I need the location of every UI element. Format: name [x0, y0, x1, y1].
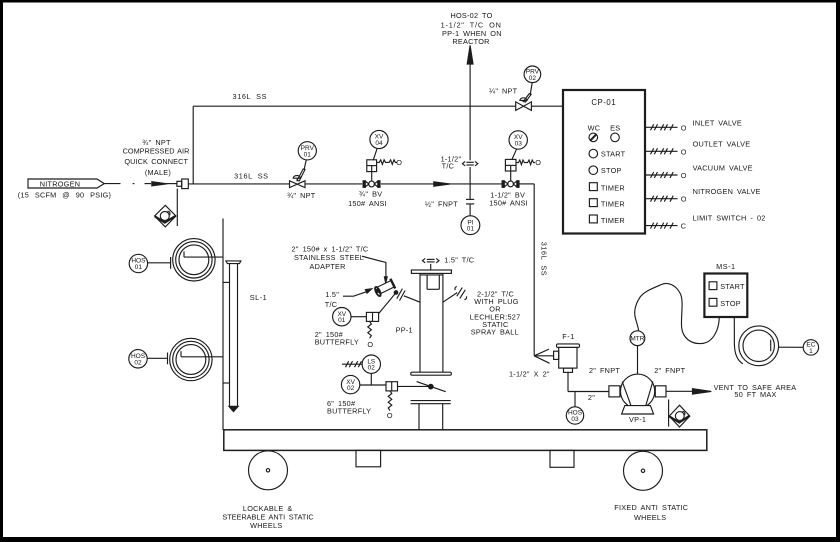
valve XV-04 (ball valve) — [363, 181, 380, 188]
svg-text:PP-1: PP-1 — [396, 325, 413, 334]
wire: XV-02 actuator to valve — [398, 385, 429, 387]
svg-text:REACTOR: REACTOR — [452, 37, 489, 46]
valve XV-03 (ball valve) — [502, 181, 519, 188]
nitrogen source flag — [18, 179, 111, 199]
svg-text:STAINLESS STEEL: STAINLESS STEEL — [294, 253, 364, 262]
svg-text:02: 02 — [529, 75, 537, 82]
svg-text:O: O — [681, 171, 687, 180]
spring squiggle XV-01 to O — [367, 321, 373, 349]
svg-text:BUTTERFLY: BUTTERFLY — [315, 338, 359, 347]
wire: HOS-02 to hose coil — [147, 353, 167, 365]
control panel CP-01 box — [563, 90, 645, 234]
wheel right — [624, 451, 663, 490]
svg-text:FIXED ANTI STATIC: FIXED ANTI STATIC — [614, 503, 688, 512]
anti-static grounding reel symbol (left) — [155, 205, 176, 227]
svg-text:2" FNPT: 2" FNPT — [589, 366, 620, 375]
button START — [589, 149, 626, 158]
TC flange bars (2-1/2" side) — [455, 287, 467, 300]
svg-text:COMPRESSED AIR: COMPRESSED AIR — [123, 146, 190, 155]
svg-text:SL-1: SL-1 — [250, 293, 267, 302]
label compressed air block — [123, 138, 190, 177]
instrument bubble XV-01 — [333, 308, 351, 326]
wire: XV-02 to actuator — [360, 384, 386, 386]
signal line outlet valve — [645, 139, 750, 156]
svg-text:STOP: STOP — [601, 166, 622, 175]
wire: XV-04 bubble link — [373, 148, 377, 160]
svg-text:TIMER: TIMER — [601, 216, 625, 225]
support block left — [356, 450, 381, 466]
instrument bubble PRV-02 — [524, 66, 541, 83]
label fixed wheels — [614, 503, 688, 522]
signal line limit switch — [645, 214, 766, 231]
svg-text:START: START — [601, 150, 626, 159]
wire: nitrogen feed dashed — [104, 182, 177, 186]
svg-text:VACUUM VALVE: VACUUM VALVE — [693, 164, 753, 173]
wire: drop to anti-static reel — [176, 189, 178, 226]
svg-text:½" FNPT: ½" FNPT — [425, 199, 458, 208]
svg-text:STOP: STOP — [720, 299, 741, 308]
cable: MS-1 to MTR — [635, 283, 720, 343]
indicator WC — [588, 124, 601, 142]
svg-text:VP-1: VP-1 — [629, 415, 646, 424]
svg-text:O: O — [387, 411, 393, 420]
svg-text:ES: ES — [610, 124, 620, 133]
svg-text:LIMIT SWITCH - 02: LIMIT SWITCH - 02 — [693, 214, 766, 223]
TC flange bars (1-1/2" side) — [397, 289, 405, 301]
wire: main line y=184 — [188, 183, 289, 185]
label 2-1/2" T/C spray ball block — [470, 289, 521, 336]
wire: MTR to pump — [637, 346, 639, 375]
svg-text:¾" BV: ¾" BV — [359, 190, 382, 199]
svg-text:2": 2" — [588, 393, 595, 402]
button STOP (MS-1) — [709, 298, 741, 307]
wire: XV-03 bubble link — [512, 149, 517, 160]
wire: vessel right nozzle — [443, 293, 457, 303]
svg-text:T/C: T/C — [325, 300, 338, 309]
spring squiggle XV-02 to O — [387, 391, 393, 420]
svg-text:2" FNPT: 2" FNPT — [654, 366, 685, 375]
svg-text:01: 01 — [467, 226, 475, 233]
svg-text:316L SS: 316L SS — [233, 92, 268, 101]
svg-text:(MALE): (MALE) — [145, 168, 171, 177]
signal line nitrogen valve — [645, 187, 761, 204]
butterfly valve disc (6" outlet) — [417, 382, 446, 392]
label lockable wheels — [222, 504, 313, 530]
svg-text:01: 01 — [304, 151, 312, 158]
svg-text:1.5": 1.5" — [325, 290, 339, 299]
wire: riser to header — [192, 106, 194, 184]
cable: MS-1 to cord reel — [734, 318, 743, 364]
cart frame vertical member — [222, 219, 224, 431]
signal squiggle XV-03 to O — [516, 158, 541, 167]
label 1-1/2" BV 150# ANSI — [489, 191, 528, 208]
svg-text:NITROGEN: NITROGEN — [40, 179, 81, 188]
valve PRV-01 — [290, 160, 307, 188]
label 1-1/2" T/C — [441, 155, 462, 171]
node: adapter lower dot — [376, 289, 379, 292]
wire: F-1 outlet down and right to pump — [568, 372, 609, 391]
svg-text:QUICK CONNECT: QUICK CONNECT — [124, 157, 188, 166]
vessel PP-1 — [411, 270, 452, 375]
wire: reel to EC-1 — [779, 346, 804, 348]
svg-text:START: START — [720, 282, 745, 291]
instrument bubble LS-02 — [362, 355, 380, 373]
wire: main line to corner and down — [519, 184, 534, 356]
reducer fan 1-1/2 x 2 — [534, 349, 553, 363]
label adapter block — [292, 245, 369, 271]
svg-text:O: O — [681, 195, 687, 204]
button START (MS-1) — [709, 282, 745, 291]
svg-text:O: O — [396, 158, 402, 167]
label 2" 150# BUTTERFLY — [315, 330, 359, 347]
label 3/4" BV 150# ANSI — [348, 190, 387, 209]
instrument bubble XV-02 — [341, 375, 359, 393]
wire: HOS-03 link — [574, 392, 576, 408]
instrument bubble HOS-02 — [129, 350, 147, 368]
motor bubble MTR — [630, 331, 645, 346]
svg-text:MS-1: MS-1 — [716, 262, 735, 271]
timer 3 — [589, 215, 624, 225]
svg-text:O: O — [367, 340, 373, 349]
svg-text:SPRAY BALL: SPRAY BALL — [471, 327, 519, 336]
svg-text:(15 SCFM @ 90 PSIG): (15 SCFM @ 90 PSIG) — [18, 190, 111, 199]
cord reel coil — [739, 326, 779, 366]
label vent to safe area — [714, 383, 797, 399]
vacuum pump VP-1 — [609, 374, 666, 414]
wire: main line segment with flow arrow — [381, 182, 502, 186]
actuator box XV-04 — [367, 160, 377, 181]
svg-text:50 FT MAX: 50 FT MAX — [734, 390, 776, 399]
valve PRV-02 on header — [516, 83, 533, 111]
actuator box XV-03 — [505, 159, 516, 180]
wire: XV-01 to actuator — [351, 316, 366, 318]
instrument bubble PRV-01 — [298, 142, 316, 160]
svg-text:MTR: MTR — [630, 335, 644, 342]
svg-text:316L SS: 316L SS — [234, 171, 269, 180]
cart platform — [224, 430, 707, 451]
svg-text:C: C — [681, 222, 687, 231]
svg-text:04: 04 — [375, 140, 383, 147]
union fitting 1-1/2" T/C on riser — [462, 161, 477, 166]
svg-text:¼" NPT: ¼" NPT — [489, 86, 518, 95]
wire: HOS-01 to hose coil — [148, 257, 171, 269]
leader to adapter — [362, 256, 387, 283]
instrument bubble EC-1 — [803, 340, 818, 355]
actuator box XV-01 — [366, 312, 378, 321]
adapter spool — [373, 279, 395, 297]
label 1.5" T/C with leader — [325, 289, 372, 309]
wire: main line segment — [305, 183, 362, 185]
instrument bubble HOS-01 — [129, 254, 147, 272]
svg-text:03: 03 — [515, 141, 523, 148]
vessel PP-1 top TC union — [422, 258, 439, 270]
svg-text:150# ANSI: 150# ANSI — [348, 199, 387, 208]
svg-text:O: O — [681, 147, 687, 156]
instrument bubble XV-03 — [509, 131, 527, 149]
wire: nozzle to vessel left — [404, 296, 420, 302]
svg-text:O: O — [535, 158, 541, 167]
svg-text:T/C: T/C — [442, 162, 455, 171]
svg-text:O: O — [681, 123, 687, 132]
instrument bubble XV-04 — [370, 130, 388, 148]
sight level column SL-1 — [223, 261, 241, 412]
svg-text:316L SS: 316L SS — [540, 242, 549, 277]
support block right — [550, 450, 574, 467]
svg-text:¾" NPT: ¾" NPT — [287, 191, 316, 200]
anti-static grounding reel symbol (right) — [669, 405, 690, 427]
svg-text:02: 02 — [368, 365, 376, 372]
svg-text:WHEELS: WHEELS — [250, 521, 282, 530]
button STOP — [589, 166, 622, 175]
filter F-1 — [554, 332, 580, 372]
wire: XV-01 actuator to adapter — [379, 293, 396, 314]
union fitting 1/2" FNPT — [466, 199, 474, 204]
svg-text:WHEELS: WHEELS — [634, 513, 666, 522]
svg-text:01: 01 — [135, 264, 143, 271]
node: TC flange dot — [394, 291, 398, 295]
label HOS-02 TO reactor — [441, 11, 502, 46]
label 6" 150# BUTTERFLY — [327, 399, 371, 416]
svg-text:01: 01 — [338, 317, 346, 324]
svg-text:02: 02 — [347, 385, 355, 392]
vessel outlet flange pair — [411, 401, 451, 430]
timer 2 — [589, 199, 624, 209]
instrument bubble PI-01 — [461, 216, 480, 235]
svg-text:WC: WC — [588, 124, 601, 133]
instrument bubble HOS-03 — [566, 407, 583, 424]
actuator box XV-02 — [386, 382, 398, 391]
wire: header to CP-01 — [531, 105, 563, 107]
svg-text:1: 1 — [809, 348, 813, 355]
timer 1 — [589, 183, 624, 193]
signal line inlet valve — [645, 118, 742, 132]
svg-text:ADAPTER: ADAPTER — [309, 262, 345, 271]
motor starter panel MS-1 — [704, 262, 747, 317]
wire: top header 316L SS — [193, 105, 516, 107]
svg-text:F-1: F-1 — [562, 332, 575, 341]
svg-text:02: 02 — [134, 359, 142, 366]
signal squiggle XV-04 to O — [377, 158, 403, 167]
signal line vacuum valve — [645, 164, 753, 180]
svg-text:1-1/2" X 2": 1-1/2" X 2" — [509, 369, 550, 378]
svg-text:OUTLET VALVE: OUTLET VALVE — [693, 139, 751, 148]
wire: LS-02 down link — [370, 373, 372, 385]
svg-text:03: 03 — [571, 416, 579, 423]
svg-text:CP-01: CP-01 — [591, 98, 616, 107]
svg-text:TIMER: TIMER — [601, 184, 625, 193]
indicator ES — [610, 124, 620, 142]
signal squiggle LS-02 — [342, 361, 362, 367]
svg-text:BUTTERFLY: BUTTERFLY — [327, 407, 371, 416]
quick connect fitting — [177, 179, 188, 189]
arrow up to reactor — [467, 45, 473, 64]
wire: vent line with arrow — [666, 389, 711, 394]
svg-text:1.5" T/C: 1.5" T/C — [444, 256, 474, 265]
wire: drop to anti-static reel (right) — [668, 400, 670, 427]
svg-text:150# ANSI: 150# ANSI — [489, 199, 528, 208]
svg-text:HOS-02 TO: HOS-02 TO — [450, 11, 492, 20]
svg-text:TIMER: TIMER — [601, 200, 625, 209]
hose coil HOS-02 — [170, 338, 223, 380]
svg-text:INLET VALVE: INLET VALVE — [693, 118, 742, 127]
hose coil HOS-01 — [173, 239, 223, 281]
svg-text:NITROGEN VALVE: NITROGEN VALVE — [693, 187, 761, 196]
wire: vertical branch x=470 — [469, 63, 471, 216]
wheel left — [249, 451, 288, 490]
